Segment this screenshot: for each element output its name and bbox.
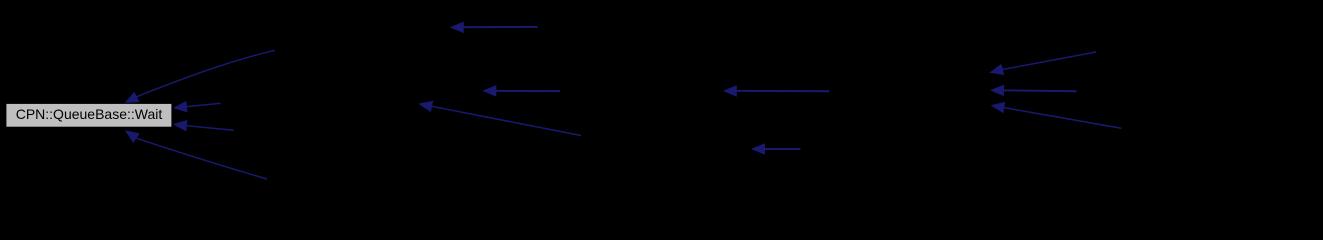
svg-text:CPN::QueueBase::Wait: CPN::QueueBase::Wait	[16, 106, 163, 122]
